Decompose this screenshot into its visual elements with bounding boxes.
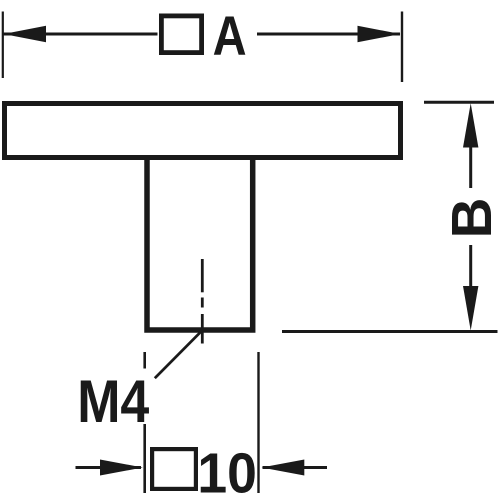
dimension 10 arrowhead right [262,460,305,476]
dimension A arrowhead left [4,26,47,42]
label A [213,4,247,67]
dimension B line upper segment [469,145,472,188]
dimension 10 line right segment [263,466,328,469]
extension line top (dimension B) [424,101,494,104]
leader line M4 [155,330,203,378]
dimension A line right segment [257,33,400,36]
stem centerline dash upper [201,259,204,292]
dimension A line left segment [4,33,158,36]
extension line left upper segment (dimension 10) [143,352,146,369]
extension line left (dimension A) [2,12,4,79]
extension line left lower segment (dimension 10) [143,424,146,493]
label 10 [197,441,257,500]
svg-text:10: 10 [197,441,257,500]
label M4 [77,368,149,435]
extension line bottom (dimension B) [282,330,498,333]
extension line right (dimension A) [401,12,403,83]
label B (rotated) [440,198,500,239]
extension line right (dimension 10) [257,352,259,493]
dimension 10 arrowhead left [100,460,143,476]
dimension 10 line left segment [76,466,142,469]
stem centerline dot [201,298,204,308]
dimension B line lower segment [469,245,472,288]
svg-text:A: A [213,4,247,67]
stem centerline dash lower [201,314,204,344]
svg-text:M4: M4 [77,368,149,435]
square symbol (dimension 10) [152,449,196,489]
dimension B arrowhead up [463,103,478,147]
svg-text:B: B [440,198,500,239]
knob stem outline [147,160,253,330]
knob flange (top bar outline) [5,104,401,158]
square symbol (dimension A) [161,16,201,53]
dimension A arrowhead right [358,26,401,42]
dimension B arrowhead down [463,286,478,331]
